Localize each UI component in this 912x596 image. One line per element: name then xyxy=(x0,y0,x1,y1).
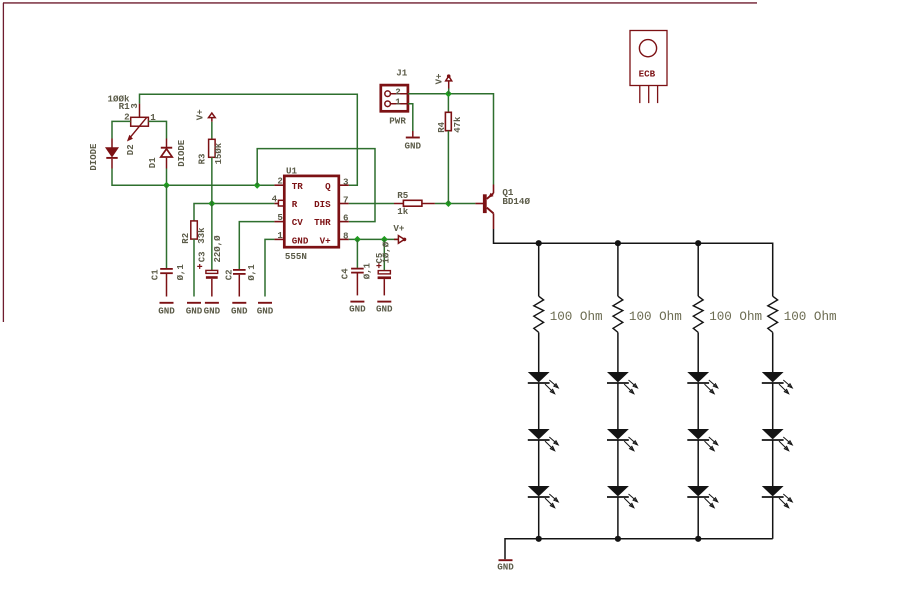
svg-text:C2: C2 xyxy=(225,269,235,280)
pin number 1 of J1 xyxy=(395,96,401,107)
svg-text:U1: U1 xyxy=(286,166,298,177)
wire pin1 GND of 555 xyxy=(265,239,274,296)
svg-text:100 Ohm: 100 Ohm xyxy=(550,310,603,324)
wire rail to C1 xyxy=(166,185,168,268)
capacitor C1 xyxy=(160,269,173,297)
svg-text:J1: J1 xyxy=(396,68,408,79)
supply V+ above R3 xyxy=(209,113,216,122)
svg-text:R: R xyxy=(292,199,298,210)
wire J1 pin1 to ground xyxy=(408,104,413,137)
LED43 xyxy=(762,486,793,508)
wire LED32 to LED33 xyxy=(697,440,699,486)
wire R4 to base junction xyxy=(447,131,449,204)
transistor Q1 xyxy=(483,185,494,230)
label R1 value 100k xyxy=(108,94,131,105)
LED12 xyxy=(528,429,559,451)
svg-text:CV: CV xyxy=(292,217,304,228)
svg-text:100 Ohm: 100 Ohm xyxy=(784,310,837,324)
pin label DIS xyxy=(314,199,331,210)
label J1 xyxy=(396,68,408,79)
ground for C2 xyxy=(231,303,248,317)
value 0,1 of C4 xyxy=(363,262,373,279)
diode D2 xyxy=(106,139,117,169)
svg-text:V+: V+ xyxy=(320,235,332,246)
svg-text:V+: V+ xyxy=(393,223,405,234)
capacitor C2 xyxy=(233,270,246,297)
junction bottom rail col2 xyxy=(615,536,621,542)
ground for C5 xyxy=(376,302,393,315)
svg-text:GND: GND xyxy=(349,304,366,315)
value 1k of R5 xyxy=(397,206,409,217)
svg-text:GND: GND xyxy=(292,235,309,246)
pin number 1 xyxy=(277,230,283,241)
junction top rail col3 xyxy=(695,240,701,246)
junction bottom rail col1 xyxy=(536,536,542,542)
svg-text:GND: GND xyxy=(405,140,422,151)
wire pot pin2 to D2 xyxy=(112,121,131,138)
label U1 xyxy=(286,166,298,177)
label D2 xyxy=(126,144,136,155)
svg-text:GND: GND xyxy=(158,305,175,316)
LED23 xyxy=(607,486,638,508)
wire to C4 xyxy=(356,239,358,268)
svg-text:THR: THR xyxy=(314,217,331,228)
svg-text:TR: TR xyxy=(292,181,304,192)
label C2 xyxy=(225,269,235,280)
wire 555 Q output to R1 pin3 xyxy=(140,94,358,185)
LED21 xyxy=(607,372,638,394)
svg-text:Q: Q xyxy=(325,181,331,192)
value 100 Ohm column 3 xyxy=(709,310,762,324)
resistor 100 Ohm column 3 xyxy=(693,296,703,332)
svg-text:47k: 47k xyxy=(453,116,463,133)
svg-text:DIODE: DIODE xyxy=(89,143,99,171)
wire LED43 to bottom rail xyxy=(772,497,774,538)
junction bottom rail col3 xyxy=(695,536,701,542)
svg-text:GND: GND xyxy=(257,305,274,316)
svg-text:V+: V+ xyxy=(196,109,206,120)
svg-text:1: 1 xyxy=(395,96,401,107)
value 220,0 of C3 xyxy=(213,235,223,263)
svg-text:100 Ohm: 100 Ohm xyxy=(709,310,762,324)
label PWR xyxy=(389,115,406,126)
pin 5 CV stub xyxy=(274,221,284,223)
label BD140 xyxy=(502,196,530,207)
wire LED33 to bottom rail xyxy=(697,497,699,538)
wire LED31 to LED32 xyxy=(697,383,699,429)
wire V+ to R4 xyxy=(447,94,449,112)
wire R3 to pin4 net and C3 xyxy=(211,157,213,270)
pin number 7 xyxy=(343,194,349,205)
svg-text:3: 3 xyxy=(130,103,140,108)
label R4 xyxy=(437,121,447,132)
svg-text:GND: GND xyxy=(231,305,248,316)
svg-text:V+: V+ xyxy=(434,74,444,85)
wire LED41 to LED42 xyxy=(772,383,774,429)
junction top rail col1 xyxy=(536,240,542,246)
pin label R xyxy=(292,199,298,210)
wire top rail to R8 xyxy=(697,243,699,296)
ground for J1 xyxy=(405,138,422,152)
value 100 Ohm column 2 xyxy=(629,310,682,324)
svg-text:2: 2 xyxy=(277,176,283,187)
label V+ above R4 xyxy=(434,74,444,85)
resistor R2 xyxy=(191,221,198,239)
resistor R4 xyxy=(445,112,451,130)
ground for C4 xyxy=(349,302,366,315)
svg-text:GND: GND xyxy=(186,305,203,316)
wire THR to TR tie xyxy=(257,149,375,222)
capacitor C5 xyxy=(376,263,391,295)
wire LED12 to LED13 xyxy=(538,440,540,486)
label C4 xyxy=(341,268,351,279)
svg-text:DIODE: DIODE xyxy=(177,139,187,167)
wire R to LED11 xyxy=(538,332,540,372)
svg-text:R1: R1 xyxy=(119,101,131,112)
capacitor C4 xyxy=(351,269,364,296)
ground for R2 xyxy=(186,303,203,317)
svg-text:PWR: PWR xyxy=(389,115,406,126)
wire D1 to rail xyxy=(166,169,168,186)
value 33k of R2 xyxy=(197,227,207,244)
junction V+ at R4 xyxy=(445,90,452,97)
pin label Q xyxy=(325,181,331,192)
label D1 xyxy=(148,157,158,168)
svg-text:D1: D1 xyxy=(148,157,158,168)
pin 1 GND stub xyxy=(274,238,284,240)
diode D1 xyxy=(161,139,172,169)
connector J1 xyxy=(381,85,408,111)
pin label THR xyxy=(314,217,331,228)
pin label CV xyxy=(292,217,304,228)
junction top rail col2 xyxy=(615,240,621,246)
svg-text:5: 5 xyxy=(277,212,283,223)
resistor 100 Ohm column 1 xyxy=(534,296,544,332)
value 47k of R4 xyxy=(453,116,463,133)
wire LED bottom rail xyxy=(505,539,773,559)
svg-text:Ø,1: Ø,1 xyxy=(247,264,257,281)
pin number 8 xyxy=(343,231,349,242)
svg-text:6: 6 xyxy=(343,213,349,224)
LED22 xyxy=(607,429,638,451)
pin number 5 xyxy=(277,212,283,223)
wire Q1 collector to LED top rail xyxy=(494,229,773,296)
wire LED21 to LED22 xyxy=(617,383,619,429)
LED33 xyxy=(687,486,718,508)
pin number 2 of J1 xyxy=(395,87,401,98)
supply V+ at pin8 xyxy=(394,236,406,244)
resistor R3 xyxy=(209,139,216,157)
LED31 xyxy=(687,372,718,394)
junction at D1 and rail xyxy=(163,182,170,189)
pin 6 THR stub xyxy=(339,221,349,223)
LED42 xyxy=(762,429,793,451)
resistor 100 Ohm column 2 xyxy=(613,296,623,332)
value 100 Ohm column 1 xyxy=(550,310,603,324)
label R3 xyxy=(198,154,208,165)
label C3 xyxy=(198,251,208,262)
ground for C3 xyxy=(204,303,221,317)
wire pot pin1 to D1 xyxy=(148,121,166,138)
ground for 555 pin1 xyxy=(257,303,274,317)
label R2 xyxy=(181,233,191,244)
label C5 xyxy=(375,253,385,264)
svg-text:1k: 1k xyxy=(397,206,409,217)
wire J1 pin2 to Q1 emitter xyxy=(408,94,494,185)
wire R5 to Q1 base xyxy=(435,203,476,205)
LED41 xyxy=(762,372,793,394)
potentiometer R1 xyxy=(127,104,148,142)
label V+ above R3 xyxy=(196,109,206,120)
svg-text:22Ø,Ø: 22Ø,Ø xyxy=(213,235,223,263)
junction at pin2 branch xyxy=(254,182,261,189)
label R5 xyxy=(397,190,409,201)
wire R to LED41 xyxy=(772,332,774,372)
wire R to LED21 xyxy=(617,332,619,372)
pin label GND xyxy=(292,235,309,246)
resistor R5 xyxy=(394,200,435,206)
pin 2 of R1 xyxy=(124,112,130,123)
value 0,1 of C2 xyxy=(247,264,257,281)
ground for C1 xyxy=(158,303,175,317)
svg-text:4: 4 xyxy=(272,193,278,204)
value 100 Ohm column 4 xyxy=(784,310,837,324)
pin 8 V+ stub xyxy=(339,238,349,240)
label DIODE for D2 xyxy=(89,143,99,171)
pin 1 of R1 xyxy=(150,112,156,123)
pin 7 DIS stub xyxy=(339,203,349,205)
label C1 xyxy=(151,269,161,280)
label Q1 xyxy=(502,187,514,198)
wire R to LED31 xyxy=(697,332,699,372)
svg-text:GND: GND xyxy=(497,562,514,573)
svg-text:ECB: ECB xyxy=(639,68,656,79)
svg-text:C4: C4 xyxy=(341,268,351,279)
value 0,1 of C1 xyxy=(176,264,186,281)
wire top rail to R7 xyxy=(617,243,619,296)
wire pin4 R to R2 xyxy=(194,204,274,221)
pin number 6 xyxy=(343,213,349,224)
wire R2 to ground xyxy=(193,239,195,296)
svg-text:100 Ohm: 100 Ohm xyxy=(629,310,682,324)
pin number 2 xyxy=(277,176,283,187)
svg-text:C3: C3 xyxy=(198,251,208,262)
svg-text:555N: 555N xyxy=(285,251,307,262)
wire pin8 to V+ arrow xyxy=(349,238,398,240)
label V+ at pin8 xyxy=(393,223,405,234)
pin 2 TR stub xyxy=(274,184,284,186)
LED32 xyxy=(687,429,718,451)
svg-text:C1: C1 xyxy=(151,269,161,280)
svg-text:DIS: DIS xyxy=(314,199,331,210)
wire LED23 to bottom rail xyxy=(617,497,619,538)
junction at C4 xyxy=(354,236,361,243)
svg-text:GND: GND xyxy=(376,304,393,315)
supply V+ above R4 xyxy=(446,74,452,94)
LED11 xyxy=(528,372,559,394)
package drawing ECB xyxy=(630,31,667,104)
wire top rail to R6 xyxy=(538,243,540,296)
wire pin7 DIS to R5 xyxy=(349,203,394,205)
svg-text:1: 1 xyxy=(277,230,283,241)
resistor 100 Ohm column 4 xyxy=(768,296,778,332)
wire base pin xyxy=(475,203,483,205)
ground for LED array xyxy=(497,560,514,572)
junction at C5 xyxy=(381,236,388,243)
pin number 3 xyxy=(343,176,349,187)
svg-text:Ø,1: Ø,1 xyxy=(176,264,186,281)
svg-text:7: 7 xyxy=(343,194,349,205)
wire D2 to rail xyxy=(112,169,274,186)
svg-text:Ø,1: Ø,1 xyxy=(363,262,373,279)
pin number 4 xyxy=(272,193,278,204)
junction pin4 net at R3/C3 xyxy=(208,200,215,207)
svg-text:33k: 33k xyxy=(197,227,207,244)
capacitor C3 xyxy=(197,264,218,297)
svg-text:R2: R2 xyxy=(181,233,191,244)
op-amp timer U1 555N box xyxy=(284,176,339,247)
label DIODE for D1 xyxy=(177,139,187,167)
pin label V+ xyxy=(320,235,332,246)
LED13 xyxy=(528,486,559,508)
pin label TR xyxy=(292,181,304,192)
wire LED42 to LED43 xyxy=(772,440,774,486)
pin 3 of R1 xyxy=(130,103,140,108)
svg-text:8: 8 xyxy=(343,231,349,242)
wire to C5 xyxy=(383,239,385,270)
junction R4 bottom at base wire xyxy=(445,200,452,207)
svg-text:15Øk: 15Øk xyxy=(214,142,224,164)
wire V+ to R3 xyxy=(211,122,213,140)
pin 4 R stub with bubble xyxy=(274,200,284,206)
svg-text:BD14Ø: BD14Ø xyxy=(502,196,530,207)
value 150k of R3 xyxy=(214,142,224,164)
svg-text:3: 3 xyxy=(343,176,349,187)
wire pin5 CV to C2 xyxy=(239,222,274,270)
svg-text:R3: R3 xyxy=(198,154,208,165)
pin 3 Q stub xyxy=(339,184,349,186)
svg-text:D2: D2 xyxy=(126,144,136,155)
svg-text:1Ø,Ø: 1Ø,Ø xyxy=(381,241,391,263)
svg-text:R5: R5 xyxy=(397,190,409,201)
wire LED13 to bottom rail xyxy=(538,497,540,538)
wire LED22 to LED23 xyxy=(617,440,619,486)
label R1 xyxy=(119,101,131,112)
value 10,0 of C5 xyxy=(381,241,391,263)
label 555N xyxy=(285,251,307,262)
wire LED11 to LED12 xyxy=(538,383,540,429)
svg-text:R4: R4 xyxy=(437,121,447,132)
svg-text:GND: GND xyxy=(204,305,221,316)
